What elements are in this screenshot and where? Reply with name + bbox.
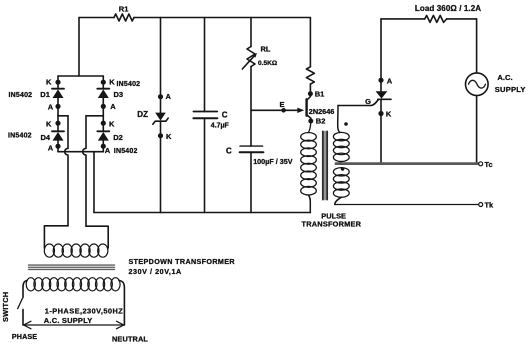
stepdown transformer primary winding: [26, 278, 120, 291]
svg-text:K: K: [46, 78, 52, 87]
transistor UJT 2N2646: [251, 90, 334, 126]
wire top rail left segment: [79, 17, 114, 19]
svg-text:A.C. SUPPLY: A.C. SUPPLY: [44, 316, 93, 325]
svg-text:2N2646: 2N2646: [309, 107, 335, 116]
svg-text:R1: R1: [119, 5, 129, 14]
wire primary right lead: [119, 281, 124, 326]
pulse transformer core: [323, 132, 327, 200]
svg-text:NEUTRAL: NEUTRAL: [112, 334, 148, 343]
svg-text:B1: B1: [315, 90, 325, 99]
wire bridge bottom rail: [58, 151, 103, 153]
wire negative tap from bridge to bottom rail: [93, 152, 95, 213]
stepdown transformer core: [29, 265, 115, 269]
wire heavy cathode bus to Tc: [336, 162, 479, 165]
svg-text:G: G: [365, 97, 371, 106]
svg-text:IN5402: IN5402: [117, 81, 141, 88]
svg-text:DZ: DZ: [137, 110, 148, 119]
thyristor SCR (right): [365, 19, 393, 162]
terminal Tk: [479, 201, 494, 210]
AC supply source (right): [466, 19, 526, 162]
svg-text:E: E: [280, 100, 285, 109]
pulse transformer primary winding: [301, 121, 317, 213]
svg-text:TRANSFORMER: TRANSFORMER: [302, 220, 362, 229]
terminal Tc: [479, 160, 493, 169]
wire primary left lead: [23, 281, 27, 298]
pulse transformer secondary top winding: [333, 106, 349, 164]
diode D2 IN5402: [97, 116, 137, 155]
svg-text:A: A: [110, 102, 116, 111]
svg-text:100µF / 35V: 100µF / 35V: [253, 157, 293, 166]
wire feed from rail down to bridge top node: [78, 18, 80, 77]
svg-text:RL: RL: [261, 44, 271, 53]
svg-text:K: K: [386, 110, 392, 119]
stepdown transformer secondary funnel wires: [44, 226, 68, 248]
svg-text:K: K: [166, 132, 172, 141]
diode D4 IN5402: [8, 116, 64, 153]
svg-text:SUPPLY: SUPPLY: [495, 85, 526, 94]
wire AC line right with crossover hop: [83, 116, 86, 226]
wire bridge left mid node to AC line: [58, 115, 68, 117]
resistor R1: [114, 5, 134, 21]
wire bottom rail: [94, 212, 310, 214]
pulse transformer secondary bottom winding: [333, 167, 349, 204]
svg-text:B2: B2: [316, 117, 326, 126]
capacitor C 4.7uF: [193, 18, 229, 213]
svg-text:A: A: [166, 92, 172, 101]
svg-text:D3: D3: [114, 90, 124, 99]
potentiometer RL 0.5K: [242, 18, 278, 147]
svg-text:IN5402: IN5402: [8, 133, 32, 140]
svg-text:K: K: [109, 119, 115, 128]
svg-text:A.C.: A.C.: [497, 73, 512, 82]
svg-text:IN5402: IN5402: [114, 148, 138, 155]
diode D1 IN5402: [9, 76, 65, 116]
svg-text:D4: D4: [41, 133, 51, 142]
diode D3 IN5402: [97, 76, 140, 116]
svg-text:D2: D2: [113, 133, 123, 142]
svg-text:Tk: Tk: [485, 201, 495, 210]
wire bridge right mid node to AC line: [86, 115, 103, 117]
label 1-phase AC supply: [44, 307, 123, 325]
svg-text:0.5KΩ: 0.5KΩ: [258, 60, 278, 67]
svg-text:D1: D1: [40, 90, 50, 99]
svg-text:K: K: [109, 78, 115, 87]
svg-text:PHASE: PHASE: [12, 332, 37, 341]
svg-text:C: C: [226, 147, 232, 156]
svg-text:A: A: [105, 146, 111, 155]
svg-text:C: C: [222, 111, 228, 120]
label pulse transformer: [302, 211, 362, 228]
svg-text:Tc: Tc: [485, 160, 493, 169]
svg-text:A: A: [48, 143, 54, 152]
switch SW: [1, 292, 23, 325]
wire bridge top rail: [58, 75, 103, 77]
wire AC line left with crossover hop: [65, 116, 68, 226]
resistor Load 360ohm 1.2A: [381, 4, 481, 23]
svg-text:1-PHASE,230V,50HZ: 1-PHASE,230V,50HZ: [45, 307, 123, 316]
svg-text:SWITCH: SWITCH: [1, 292, 10, 322]
wire top rail right segment: [134, 17, 310, 19]
wire AC supply span with arrows: [23, 321, 124, 329]
wire secondary bottom to Tk: [335, 204, 479, 206]
wire gate line from secondary to SCR gate: [338, 105, 371, 107]
label stepdown transformer: [129, 257, 236, 276]
svg-text:STEPDOWN TRANSFORMER: STEPDOWN TRANSFORMER: [129, 257, 236, 266]
capacitor C 100uF/35V: [226, 146, 293, 212]
svg-text:K: K: [46, 119, 52, 128]
svg-text:4.7µF: 4.7µF: [211, 122, 230, 129]
svg-text:IN5402: IN5402: [9, 92, 33, 99]
stepdown transformer secondary winding: [44, 244, 108, 257]
svg-text:Load 360Ω / 1.2A: Load 360Ω / 1.2A: [415, 4, 481, 13]
zener diode DZ: [137, 18, 172, 213]
resistor R2 (B1 series): [306, 18, 314, 97]
svg-text:A: A: [48, 103, 54, 112]
svg-text:230V / 20V,1A: 230V / 20V,1A: [129, 267, 182, 276]
svg-text:A: A: [387, 77, 393, 86]
